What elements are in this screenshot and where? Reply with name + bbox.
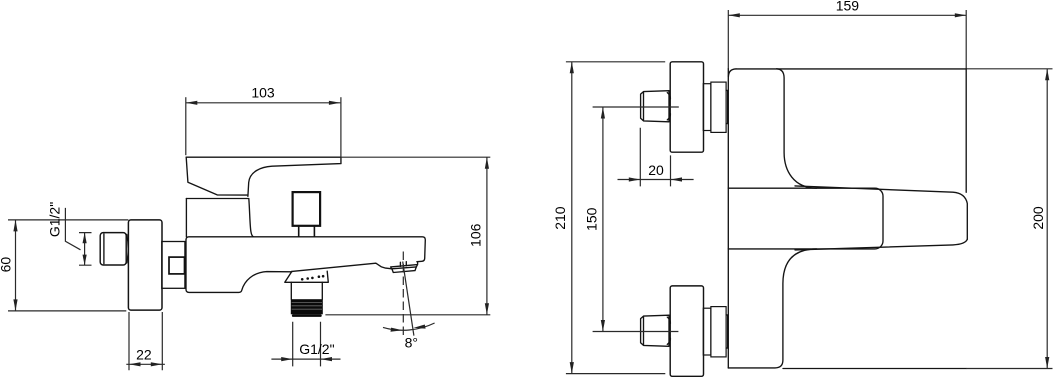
svg-text:200: 200	[1030, 206, 1046, 230]
svg-text:210: 210	[552, 206, 568, 230]
svg-text:103: 103	[251, 85, 275, 101]
svg-text:106: 106	[468, 223, 484, 247]
svg-text:159: 159	[836, 0, 860, 13]
svg-text:22: 22	[136, 346, 152, 362]
svg-text:20: 20	[648, 162, 664, 178]
svg-text:G1/2": G1/2"	[47, 202, 63, 237]
svg-text:150: 150	[583, 207, 599, 231]
svg-text:60: 60	[0, 257, 13, 273]
svg-text:G1/2": G1/2"	[299, 341, 334, 357]
svg-text:8°: 8°	[405, 335, 418, 351]
